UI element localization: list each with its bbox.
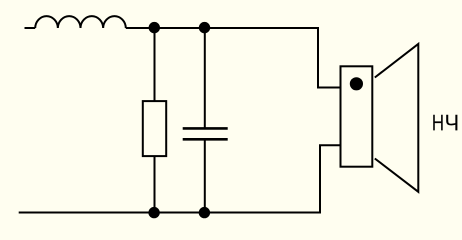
wire top horizontal: [126, 27, 318, 29]
inductor L1: [35, 16, 126, 28]
label НЧ (Н glyph): [433, 115, 442, 131]
node junction top-left: [149, 22, 160, 33]
node junction bottom-right: [199, 207, 210, 218]
node junction top-right: [199, 22, 210, 33]
capacitor C1: [183, 128, 228, 139]
speaker cone: [375, 44, 419, 192]
resistor R1: [143, 101, 166, 156]
node junction bottom-left: [148, 207, 159, 218]
speaker BA1 body: [341, 66, 373, 166]
wire top-left lead: [25, 27, 36, 29]
wire capacitor bottom: [204, 140, 206, 213]
wire resistor bottom: [154, 156, 156, 213]
speaker polarity dot: [350, 77, 363, 90]
wire speaker bottom terminal: [320, 145, 341, 213]
wire capacitor top: [204, 28, 206, 128]
wire bottom horizontal: [19, 212, 320, 214]
label Ч glyph: [446, 115, 457, 131]
wire resistor top: [154, 28, 156, 101]
wire speaker top terminal: [318, 27, 341, 88]
